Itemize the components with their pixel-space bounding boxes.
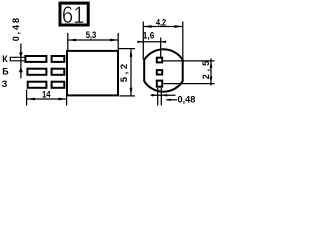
svg-text:5,3: 5,3	[86, 30, 97, 40]
svg-text:2,5: 2,5	[201, 61, 211, 80]
svg-text:Б: Б	[2, 66, 9, 76]
dim 4,2 (flat to flat)	[143, 18, 183, 60]
svg-text:61: 61	[62, 1, 85, 28]
lead B cross-section (front view)	[157, 70, 162, 74]
dim 2,5 (outer lead pitch, right)	[163, 58, 215, 85]
svg-text:З: З	[2, 79, 8, 89]
dim 5,3 (top of body)	[68, 30, 118, 50]
svg-text:0,48: 0,48	[11, 18, 21, 41]
lead E flat part (outer segment)	[28, 82, 47, 88]
dim 0,48 (lead width, bottom of front view)	[151, 88, 196, 106]
marking box "61"	[60, 1, 88, 28]
lead K thin section	[10, 57, 25, 61]
lead B flat part (inner segment)	[52, 69, 65, 75]
lead E flat part (inner segment)	[52, 82, 65, 88]
transistor body (side view)	[67, 51, 118, 96]
left flat	[143, 59, 145, 81]
dim 0,48 lead thickness (left, vertical)	[11, 18, 23, 78]
lead B flat part (outer segment)	[27, 69, 46, 75]
lead E cross-section (front view)	[157, 81, 162, 87]
lead K cross-section (front view)	[157, 58, 162, 63]
dim 5,2 (body height, between views)	[119, 49, 135, 96]
svg-text:0,48: 0,48	[178, 94, 196, 104]
right flat	[182, 59, 184, 81]
svg-text:5,2: 5,2	[119, 64, 130, 83]
svg-text:1,6: 1,6	[143, 31, 155, 41]
dim 14 (bottom, lead length)	[27, 89, 67, 105]
lead K flat part (outer segment)	[25, 56, 46, 62]
svg-text:К: К	[2, 54, 8, 64]
svg-text:14: 14	[42, 89, 51, 99]
dim 1,6 (flat to lead axis)	[137, 31, 166, 58]
front view: circle with flats	[144, 49, 183, 91]
lead K flat part (inner segment)	[52, 56, 65, 62]
